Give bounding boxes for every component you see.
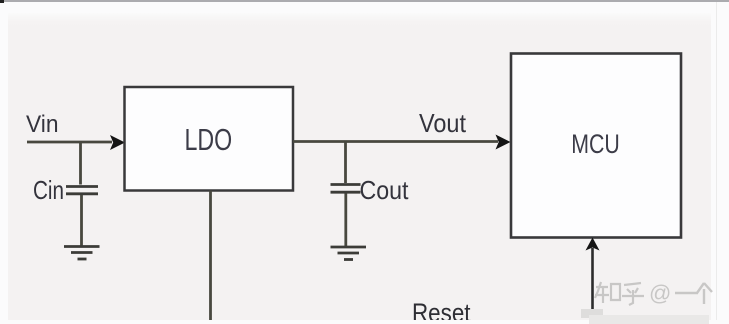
page top hairline	[0, 0, 729, 2]
wire Cin to ground	[80, 195, 83, 246]
bottom white strip	[0, 320, 729, 324]
wire Cout tap	[344, 141, 347, 184]
ground (Cin)	[64, 247, 100, 260]
svg-text:Cin: Cin	[33, 175, 64, 205]
svg-text:Vout: Vout	[419, 108, 467, 138]
right divider line	[716, 2, 717, 324]
capacitor Cin	[66, 187, 98, 194]
svg-text:LDO: LDO	[185, 122, 233, 157]
arrowhead into MCU bottom	[586, 238, 600, 251]
svg-text:Cout: Cout	[360, 175, 410, 205]
svg-text:MCU: MCU	[571, 129, 620, 159]
arrowhead into LDO	[110, 135, 125, 150]
ground (Cout)	[331, 247, 367, 260]
wire reset to MCU	[591, 248, 594, 316]
LDO block	[125, 87, 294, 191]
wire Vin input	[27, 141, 112, 144]
svg-text:@: @	[649, 281, 671, 306]
watermark zhihu 乎	[622, 283, 644, 305]
watermark zhihu 知	[595, 282, 620, 303]
MCU block	[511, 54, 681, 238]
arrowhead into MCU	[496, 135, 511, 150]
svg-text:Vin: Vin	[26, 111, 59, 138]
watermark blur patch	[581, 309, 603, 318]
corner mark	[0, 0, 4, 3]
wire Cin tap	[79, 141, 82, 185]
watermark 个	[697, 283, 712, 304]
capacitor Cout	[331, 185, 361, 193]
watermark 一	[675, 292, 698, 294]
bottom gray band	[589, 315, 709, 324]
wire Cout to ground	[344, 194, 347, 247]
wire LDO bottom (reset)	[209, 191, 212, 322]
wire Vout	[293, 140, 498, 143]
